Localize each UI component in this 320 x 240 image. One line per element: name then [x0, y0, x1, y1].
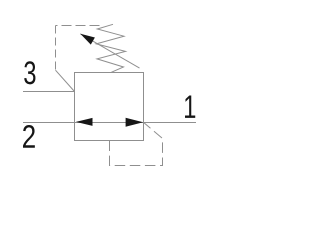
- port 1 line: [144, 122, 197, 124]
- label port 1: [185, 96, 195, 118]
- valve body square: [75, 73, 144, 141]
- spring (zigzag): [96, 24, 125, 72]
- right flow arrowhead: [126, 118, 144, 127]
- port 2 line: [23, 122, 75, 124]
- left flow arrowhead: [76, 118, 93, 126]
- pilot diagonal to port 3 junction: [56, 70, 75, 91]
- bottom pilot loop (dashed): from body bottom, around, to outlet junction: [110, 123, 163, 166]
- label port 2: [23, 125, 35, 148]
- pilot line top horizontal (dashed): [56, 25, 100, 27]
- flow path line inside body: [75, 122, 144, 124]
- port 3 line: [23, 91, 75, 93]
- adjustment arrowhead: [80, 34, 95, 45]
- adjustment arrow shaft: [80, 34, 139, 68]
- label port 3: [24, 61, 35, 84]
- pilot line top-left vertical (dashed): [55, 26, 57, 71]
